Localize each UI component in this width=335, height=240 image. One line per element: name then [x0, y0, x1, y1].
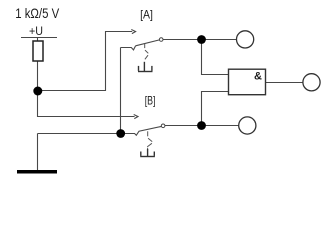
svg-text:[B]: [B]: [145, 93, 156, 107]
svg-text:1 kΩ/5 V: 1 kΩ/5 V: [15, 5, 60, 21]
svg-text:+U: +U: [29, 26, 43, 38]
svg-text:&: &: [254, 70, 262, 82]
svg-text:[A]: [A]: [140, 7, 153, 21]
